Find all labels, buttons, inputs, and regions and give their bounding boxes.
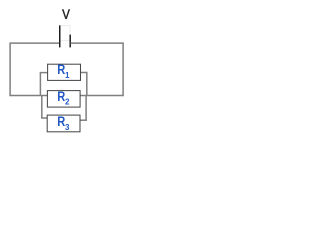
wire R3 row right	[80, 119, 87, 121]
wire inner right vertical lower (R2 row to R3)	[85, 95, 87, 121]
svg-text:3: 3	[65, 123, 70, 132]
wire top left (battery to left corner)	[10, 42, 59, 44]
wire R1 row left	[40, 72, 48, 74]
resistor R1 box	[48, 64, 81, 80]
resistor R3 box	[47, 115, 80, 132]
wire left outer vertical	[9, 43, 11, 97]
wire R3 row left	[41, 117, 47, 119]
resistor R2 box	[47, 91, 80, 108]
wire inner right vertical upper (R1 to R2 row)	[86, 72, 88, 96]
wire R1 row right	[80, 72, 87, 74]
battery V short plate (right)	[69, 35, 71, 48]
battery plate ghost box	[60, 26, 70, 41]
wire R2 row right	[80, 95, 124, 97]
wire right outer vertical	[122, 43, 124, 97]
wire inner left vertical upper (R1 to R2 row)	[39, 72, 41, 96]
svg-text:1: 1	[65, 71, 70, 80]
battery V long plate (left)	[59, 25, 61, 47]
wire R2 row left	[10, 95, 48, 97]
svg-text:2: 2	[65, 98, 70, 107]
wire top right (battery to right corner)	[71, 42, 124, 44]
node V label	[62, 9, 70, 19]
wire inner left vertical lower (R2 row to R3)	[41, 95, 43, 118]
